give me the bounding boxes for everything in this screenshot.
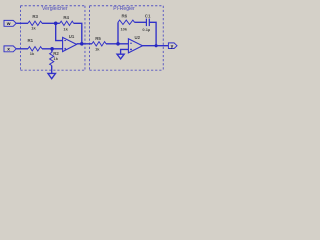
svg-text:PI-Regler: PI-Regler [113,6,135,12]
wire: port X to R1 [16,48,28,50]
wire: node B down to R2 [51,49,53,53]
port W (input) [4,20,16,26]
ground (left) [48,73,56,78]
resistor R1 [28,47,42,51]
capacitor C1 plate left [145,19,147,27]
wire: R3 to node A [42,22,56,24]
junction node B [50,47,54,51]
svg-text:C1: C1 [145,13,151,18]
op-amp U2 minus sign [130,42,132,44]
svg-text:R5: R5 [95,36,101,41]
wire: R5 to U2 inverting input [106,43,128,45]
dashed box PI-Regler [90,6,164,70]
svg-text:1k: 1k [63,27,68,32]
wire: node C up to R6 [117,22,119,44]
wire: R4 to feedback corner down to output node [74,23,82,44]
wire: U2 output to port Y [143,45,169,47]
svg-text:10k: 10k [120,27,127,32]
dashed box Vergleicher [20,6,85,70]
junction: U2 output/feedback [155,44,158,47]
svg-text:Vergleicher: Vergleicher [42,6,68,12]
op-amp U1 plus sign [64,48,66,50]
svg-text:1k: 1k [95,46,100,51]
resistor R3 [28,21,42,25]
svg-text:x: x [7,48,10,53]
op-amp U1 minus sign [64,40,66,42]
svg-text:y: y [171,44,174,49]
wire: U2 non-inverting input to ground [121,49,129,54]
wire: node A down to U1 inverting input [56,23,63,40]
junction: U1 output/feedback [80,42,84,46]
port Y (output) [168,43,177,49]
svg-text:R4: R4 [63,15,69,20]
svg-text:1k: 1k [53,56,58,61]
resistor R2 (vertical) [50,52,54,65]
resistor R6 [118,20,135,24]
wire: node A to R4 [56,22,60,24]
svg-text:0.1µ: 0.1µ [142,27,151,32]
port X (input) [4,46,16,52]
capacitor C1 plate right [148,19,150,27]
ground (right) [117,54,124,59]
svg-text:U2: U2 [135,35,141,40]
wire: R6 to C1 [135,21,147,23]
background [0,0,180,84]
svg-text:R1: R1 [27,38,33,43]
op-amp U2 [128,39,142,53]
svg-text:w: w [6,22,11,27]
svg-text:1k: 1k [30,51,35,56]
wire: R1 to U1 non-inverting input [42,48,63,50]
resistor R5 [92,42,106,46]
junction node C [116,42,120,46]
op-amp U2 plus sign [130,49,132,51]
wire: C1 to feedback corner down to output [150,22,157,45]
svg-text:R6: R6 [121,14,127,19]
junction node A [54,22,58,26]
wire: U1 output to R5 [77,43,92,45]
wire: R2 to ground [51,66,53,74]
svg-text:R3: R3 [32,14,38,19]
resistor R4 [60,21,74,25]
svg-text:U1: U1 [69,34,75,39]
op-amp U1 [63,37,77,51]
svg-text:1k: 1k [31,25,36,30]
wire: port W to R3 [16,22,28,24]
